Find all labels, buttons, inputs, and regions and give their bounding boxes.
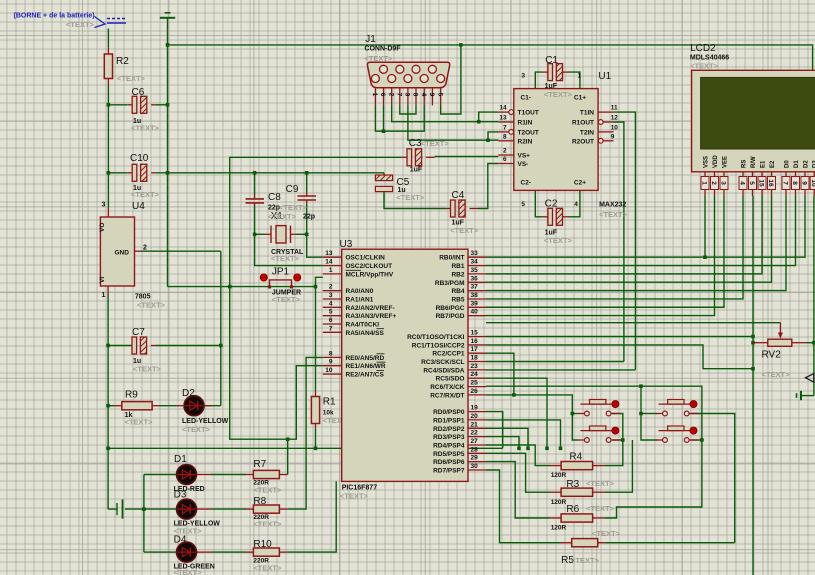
svg-text:RD2/PSP2: RD2/PSP2 — [433, 426, 465, 433]
wire: bottom rail y=448.3 — [108, 447, 503, 449]
svg-text:E1: E1 — [761, 160, 767, 168]
pin 14 U1 T1OUT — [509, 110, 514, 115]
svg-text:3: 3 — [102, 202, 106, 209]
wire: PIC RD2 drop — [486, 428, 528, 448]
svg-text:7: 7 — [503, 124, 507, 131]
svg-text:<TEXT>: <TEXT> — [253, 564, 282, 573]
resistor R9 — [122, 402, 152, 410]
wire: PIC RB1 to LCD pin column — [486, 196, 796, 266]
pin 6 U1 VS- — [498, 163, 514, 165]
svg-text:7: 7 — [782, 181, 789, 185]
svg-text:T1OUT: T1OUT — [518, 110, 539, 117]
node: junction crystal right / C9 column — [305, 233, 309, 237]
svg-text:RC4/SDI/SDA: RC4/SDI/SDA — [423, 367, 464, 374]
crystal X1 — [265, 233, 271, 235]
capacitor C4 1uF — [446, 208, 451, 210]
wire: PIC RC3 line — [486, 361, 624, 363]
svg-text:<TEXT>: <TEXT> — [364, 54, 393, 63]
svg-text:MAX232: MAX232 — [599, 202, 626, 209]
svg-text:7: 7 — [396, 93, 403, 97]
potentiometer RV2 — [768, 339, 792, 346]
wire: PIC RC1 jog to x=753 — [486, 345, 753, 369]
svg-text:R6: R6 — [566, 504, 579, 515]
pin 3 U3 RA1/AN1 — [323, 298, 342, 300]
svg-text:<TEXT>: <TEXT> — [450, 226, 479, 235]
wire: PIC RB4 to LCD pin column — [486, 196, 786, 291]
wire: button A left lead from column — [572, 413, 578, 415]
svg-text:<TEXT>: <TEXT> — [544, 236, 573, 245]
svg-text:3: 3 — [720, 181, 727, 185]
resistor R8 220R — [253, 505, 279, 513]
wire: PIC RD7 to R5 left — [486, 470, 560, 543]
wire: PIC RB2 to LCD pin column — [486, 196, 762, 274]
svg-text:R2OUT: R2OUT — [572, 138, 594, 145]
wire: C8 top lead — [254, 173, 256, 195]
svg-text:RB5: RB5 — [451, 297, 464, 304]
svg-text:<TEXT>: <TEXT> — [592, 529, 621, 538]
wire: PIC RB6 to LCD pin column — [486, 196, 724, 307]
pin 6 J1 — [383, 88, 385, 106]
svg-text:VSS: VSS — [704, 156, 710, 168]
svg-text:12: 12 — [611, 115, 619, 122]
wire: C9 top lead — [306, 173, 308, 192]
wire: D4 left — [144, 551, 176, 553]
resistor R5 120R — [572, 539, 598, 547]
svg-text:23: 23 — [471, 363, 479, 370]
pin 40 U3 RB7/PGD — [468, 315, 486, 317]
node: junction RC1 join — [751, 367, 755, 371]
wire: MAX232 pin5 to C2 left — [535, 190, 542, 216]
wire: PIC RD3 drop — [486, 437, 519, 449]
svg-text:VS+: VS+ — [518, 153, 531, 160]
svg-text:2: 2 — [143, 245, 147, 252]
node: junction DB9 pin5 riser on top rail — [459, 43, 463, 47]
pin 28 U3 RD5/PSP5 — [468, 452, 486, 454]
svg-text:RA4/T0CKI: RA4/T0CKI — [346, 322, 380, 329]
node: junction C6 ground rail — [166, 103, 170, 107]
svg-text:27: 27 — [471, 438, 479, 445]
svg-text:8: 8 — [791, 181, 798, 185]
svg-text:36: 36 — [471, 275, 479, 282]
svg-text:RD3/PSP3: RD3/PSP3 — [433, 434, 465, 441]
wire: R5 right line — [605, 542, 735, 544]
wire: PIC RB3 to LCD pin column — [486, 196, 772, 282]
svg-text:R10: R10 — [253, 539, 272, 550]
svg-text:RC0/T1OSO/T1CKI: RC0/T1OSO/T1CKI — [407, 334, 465, 341]
svg-text:R4: R4 — [569, 452, 582, 463]
wire: RV2 wiper line — [486, 322, 780, 324]
pin 1 J1 — [374, 88, 376, 106]
pin 25 U3 RC6/TX/CK — [468, 386, 486, 388]
wire: LCD pin10 column down to RV2 right / ground — [813, 196, 815, 396]
svg-text:VI: VI — [99, 277, 106, 283]
svg-text:13: 13 — [499, 115, 507, 122]
wire: DB9 pin7-pin8 link — [400, 105, 416, 114]
pin 2 U1 VS+ — [498, 154, 514, 156]
svg-text:RB0/INT: RB0/INT — [439, 255, 464, 262]
svg-text:C8: C8 — [268, 192, 281, 203]
svg-text:16: 16 — [767, 179, 774, 187]
svg-text:R9: R9 — [125, 390, 138, 401]
LED D1 LED-RED — [176, 474, 183, 476]
wire: C9 bottom to PIC pin13 — [307, 204, 323, 257]
svg-text:5: 5 — [329, 309, 333, 316]
svg-text:RB7/PGD: RB7/PGD — [436, 313, 465, 320]
svg-text:10: 10 — [810, 179, 815, 187]
wire: left column U4 pin1 down to battery minus — [107, 295, 109, 509]
pin 21 U3 RD2/PSP2 — [468, 427, 486, 429]
svg-text:8: 8 — [329, 350, 333, 357]
battery cell (negative return) — [116, 503, 118, 515]
svg-text:R8: R8 — [253, 496, 266, 507]
svg-text:3: 3 — [329, 292, 333, 299]
svg-text:MDLS40466: MDLS40466 — [690, 55, 729, 62]
pin 8 U1 R2IN — [498, 140, 514, 142]
svg-text:RA5/AN4/SS: RA5/AN4/SS — [346, 330, 385, 337]
svg-text:1: 1 — [102, 292, 106, 299]
LED D3 LED-YELLOW — [176, 508, 183, 510]
wire: LCD pin1 column to RB0 line — [704, 196, 706, 257]
wire: jumper drop line to LED area rail — [230, 287, 323, 440]
svg-text:17: 17 — [471, 346, 479, 353]
pin 24 U3 RC5/SDO — [468, 377, 486, 379]
svg-text:RC2/CCP1: RC2/CCP1 — [432, 351, 465, 358]
svg-text:3: 3 — [521, 73, 525, 80]
svg-text:19: 19 — [471, 405, 479, 412]
pin 12 U1 R1OUT — [598, 120, 603, 125]
pin 13 U3 OSC1/CLKIN — [323, 256, 342, 258]
ground (right, rotated) — [800, 391, 802, 400]
wire: C7 right to +5V column — [156, 345, 221, 347]
pin 13 U1 R1IN — [498, 121, 514, 123]
svg-text:37: 37 — [471, 284, 479, 291]
svg-text:<TEXT>: <TEXT> — [268, 212, 297, 221]
wire: PIC RB7 to LCD pin column — [486, 196, 715, 316]
svg-text:OSC1/CLKIN: OSC1/CLKIN — [346, 255, 386, 262]
svg-text:R1OUT: R1OUT — [572, 120, 594, 127]
wire: D3 right to R8 — [211, 508, 246, 510]
capacitor C8 22p — [246, 194, 255, 196]
node: junction bottom rail left column — [106, 447, 110, 451]
wire: battery terminal to R2 — [107, 29, 109, 48]
svg-text:R2IN: R2IN — [518, 138, 533, 145]
wire: +V top horizontal rail y=44.9 — [168, 45, 813, 71]
svg-text:D1: D1 — [794, 160, 800, 168]
pin 15 U3 RC0/T1OSO/T1CKI — [468, 336, 486, 338]
wire: R9 left — [108, 405, 114, 407]
pin 5 U3 RA3/AN3/VREF+ — [323, 315, 342, 317]
svg-text:11: 11 — [611, 105, 618, 112]
pin 6 U3 RA4/T0CKI — [323, 323, 342, 325]
wire: PIC RC6 bus to buttons C D and R6 — [486, 386, 702, 518]
node: junction rail C9 — [305, 171, 309, 175]
svg-text:20: 20 — [471, 413, 479, 420]
svg-text:16: 16 — [471, 338, 479, 345]
svg-text:21: 21 — [471, 421, 479, 428]
LED D2 LED-YELLOW — [176, 405, 183, 407]
pin 26 U3 RC7/RX/DT — [468, 394, 486, 396]
wire: DB9 pin5 to top rail — [441, 45, 461, 114]
push button SW-C — [656, 413, 663, 415]
svg-text:RD4/PSP4: RD4/PSP4 — [433, 443, 465, 450]
wire: D1 left — [144, 474, 176, 476]
svg-text:120R: 120R — [551, 499, 567, 506]
svg-text:1: 1 — [701, 181, 708, 185]
wire: R10 right riser — [287, 481, 336, 552]
svg-text:C2: C2 — [545, 199, 558, 210]
node: junction MCLR jumper line — [314, 285, 318, 289]
op-amp U1 MAX232 — [514, 89, 598, 191]
svg-text:<TEXT>: <TEXT> — [586, 504, 615, 513]
svg-text:RA1/AN1: RA1/AN1 — [346, 297, 374, 304]
svg-text:D1: D1 — [174, 454, 187, 465]
wire: PIC RC2 jog down to RC7 line — [486, 353, 514, 395]
svg-text:15: 15 — [471, 330, 479, 337]
svg-text:C10: C10 — [130, 153, 149, 164]
svg-text:R2: R2 — [116, 56, 129, 67]
connector J1 CONN-D9F — [367, 62, 449, 87]
node: junction C7 right column — [219, 344, 223, 348]
svg-text:22: 22 — [471, 430, 479, 437]
node: junction top rail / ground rail — [166, 43, 170, 47]
svg-text:15: 15 — [758, 179, 765, 187]
wire: PIC RC7 to buttons A B left — [486, 395, 578, 440]
svg-text:C4: C4 — [452, 190, 465, 201]
svg-text:4: 4 — [574, 201, 578, 208]
pin 3 J1 — [407, 88, 409, 106]
node: junction C10 left column — [107, 171, 111, 175]
svg-text:120R: 120R — [551, 472, 567, 479]
svg-text:<TEXT>: <TEXT> — [690, 62, 719, 71]
svg-text:1: 1 — [578, 73, 582, 80]
svg-text:RA0/AN0: RA0/AN0 — [346, 288, 374, 295]
svg-text:33: 33 — [471, 250, 479, 257]
svg-text:U3: U3 — [340, 239, 353, 250]
node: junction rail C8 — [253, 171, 257, 175]
svg-text:LCD2: LCD2 — [690, 43, 716, 54]
svg-text:J1: J1 — [365, 34, 376, 45]
svg-text:28: 28 — [471, 446, 479, 453]
svg-text:GND: GND — [115, 250, 130, 257]
wire: DB9 pin1-pin6-pin4 link — [375, 105, 424, 131]
power terminal (BORNE + de la batterie) — [95, 17, 106, 28]
wire: D4 right to R10 — [211, 551, 246, 553]
svg-text:D2: D2 — [804, 160, 810, 168]
microcontroller U3 PIC16F877 — [342, 249, 468, 481]
capacitor C6 — [127, 104, 132, 106]
wire: MAX232 T1IN down to PIC RC4 line — [614, 112, 636, 370]
svg-text:4: 4 — [420, 93, 427, 97]
svg-text:R1: R1 — [323, 397, 336, 408]
svg-text:R7: R7 — [253, 459, 266, 470]
svg-text:(BORNE + de la batterie): (BORNE + de la batterie) — [14, 13, 95, 20]
svg-text:CONN-D9F: CONN-D9F — [364, 46, 401, 53]
capacitor C3 1uF — [402, 156, 408, 158]
pin 5 J1 — [440, 88, 442, 106]
svg-text:9: 9 — [801, 181, 808, 185]
svg-text:RC6/TX/CK: RC6/TX/CK — [430, 384, 465, 391]
svg-text:14: 14 — [499, 105, 507, 112]
wire: PIC RD6 to R6 left — [486, 462, 550, 518]
svg-text:5: 5 — [521, 201, 525, 208]
svg-text:5: 5 — [748, 181, 755, 185]
wire: MAX232 R1OUT down to PIC RC3 line — [614, 122, 624, 362]
svg-text:RB4: RB4 — [451, 288, 464, 295]
resistor R7 220R — [253, 470, 279, 478]
pin 30 U3 RD7/PSP7 — [468, 469, 486, 471]
svg-text:9: 9 — [428, 93, 435, 97]
svg-text:RD7/PSP7: RD7/PSP7 — [433, 468, 465, 475]
svg-text:<TEXT>: <TEXT> — [66, 20, 95, 29]
svg-text:<TEXT>: <TEXT> — [340, 492, 369, 501]
svg-text:5: 5 — [436, 93, 443, 97]
svg-text:T2IN: T2IN — [580, 129, 594, 136]
svg-text:RB2: RB2 — [451, 271, 464, 278]
svg-text:RB1: RB1 — [451, 263, 464, 270]
svg-text:RB3/PGM: RB3/PGM — [435, 280, 465, 287]
svg-text:VEE: VEE — [723, 156, 729, 168]
svg-text:1: 1 — [329, 267, 333, 274]
svg-text:<TEXT>: <TEXT> — [544, 90, 573, 99]
svg-text:<TEXT>: <TEXT> — [271, 254, 300, 263]
wire: C6 right — [156, 104, 168, 106]
svg-text:2: 2 — [329, 284, 333, 291]
pin 17 U3 RC2/CCP1 — [468, 352, 486, 354]
svg-text:D4: D4 — [174, 535, 187, 546]
LED D4 LED-GREEN — [176, 551, 183, 553]
svg-text:<TEXT>: <TEXT> — [272, 295, 301, 304]
svg-text:6: 6 — [329, 317, 333, 324]
wire: DB9 pin3 to MAX232 R2IN — [408, 105, 498, 140]
svg-text:T2OUT: T2OUT — [518, 129, 539, 136]
wire: MAX232 pin3 to C1 left — [535, 72, 542, 89]
pin 20 U3 RD1/PSP1 — [468, 419, 486, 421]
wire: battery cell minus to left column — [108, 508, 117, 510]
svg-text:<TEXT>: <TEXT> — [131, 124, 160, 133]
pin 9 U1 R2OUT — [598, 138, 603, 143]
wire: button D right to RC7 column — [691, 439, 702, 441]
wire: battery cell to rail — [125, 508, 144, 510]
wire: C3 left feed from jumper column — [230, 157, 402, 286]
svg-text:RV2: RV2 — [762, 350, 782, 361]
push button SW-B — [578, 439, 585, 441]
svg-text:C1+: C1+ — [574, 95, 586, 102]
svg-text:<TEXT>: <TEXT> — [131, 190, 160, 199]
resistor R10 220R — [253, 548, 279, 556]
svg-text:<TEXT>: <TEXT> — [182, 425, 211, 434]
svg-text:C2+: C2+ — [574, 180, 586, 187]
wire: D1 right to R7 — [211, 474, 246, 476]
pin 33 U3 RB0/INT — [468, 256, 486, 258]
wire: PIC RD5 to R3 left — [486, 453, 550, 492]
node: junction crystal left / C8 column — [253, 233, 257, 237]
capacitor C1 1uF — [542, 71, 548, 73]
svg-text:3: 3 — [404, 93, 411, 97]
input terminal (arrow) — [805, 374, 814, 383]
pin 19 U3 RD0/PSP0 — [468, 411, 486, 413]
svg-text:10: 10 — [611, 124, 619, 131]
svg-text:C7: C7 — [132, 327, 145, 338]
resistor R1 10k — [311, 397, 319, 424]
svg-text:26: 26 — [471, 388, 479, 395]
pin 9 J1 — [431, 88, 433, 106]
svg-text:RS: RS — [742, 160, 748, 168]
svg-text:2: 2 — [710, 181, 717, 185]
wire: C2 right to MAX232 pin4 — [569, 190, 580, 216]
svg-text:4: 4 — [329, 300, 333, 307]
wire: net MCLR jumper line y=286.6 — [168, 286, 316, 288]
svg-text:1uF: 1uF — [545, 83, 558, 90]
pin 34 U3 RB1 — [468, 265, 486, 267]
svg-text:R3: R3 — [566, 479, 579, 490]
svg-text:RD5/PSP5: RD5/PSP5 — [433, 451, 465, 458]
wire: RV2 left terminal from x=753 — [751, 341, 755, 345]
svg-text:C1: C1 — [545, 55, 558, 66]
wire: PIC pin8 to R8 — [288, 357, 323, 509]
wire: PIC RD1 drop — [486, 420, 561, 448]
svg-text:VDD: VDD — [713, 155, 719, 168]
svg-text:2: 2 — [503, 148, 507, 155]
wire: crystal right to C9 column — [297, 233, 307, 235]
svg-text:<TEXT>: <TEXT> — [421, 139, 450, 148]
pin 9 U3 RE1/AN6/WR — [323, 365, 342, 367]
wire: PIC pin1 MCLR to R1 column — [316, 277, 323, 391]
capacitor C9 22p — [298, 195, 317, 197]
svg-text:39: 39 — [471, 300, 479, 307]
wire: MAX232 T2OUT jog to pin3 line — [488, 132, 498, 140]
pin 11 U1 T1IN — [598, 111, 613, 113]
svg-text:24: 24 — [471, 371, 479, 378]
svg-text:<TEXT>: <TEXT> — [396, 193, 425, 202]
svg-text:38: 38 — [471, 292, 479, 299]
pin 8 U3 RE0/AN5/RD — [323, 356, 342, 358]
svg-text:D2: D2 — [182, 388, 195, 399]
svg-text:RC1/T1OSI/CCP2: RC1/T1OSI/CCP2 — [412, 342, 465, 349]
pin 38 U3 RB5 — [468, 298, 486, 300]
pin 10 U3 RE2/AN7/CS — [323, 373, 342, 375]
svg-text:U1: U1 — [598, 71, 611, 82]
svg-text:MCLR/Vpp/THV: MCLR/Vpp/THV — [346, 271, 394, 278]
svg-text:40: 40 — [471, 309, 479, 316]
svg-text:<TEXT>: <TEXT> — [586, 479, 615, 488]
wire: DB9 pin2 to MAX232 R1IN — [392, 105, 499, 121]
wire: crystal left to C8 column — [255, 233, 265, 235]
svg-text:<TEXT>: <TEXT> — [117, 74, 146, 83]
wire: C8 bottom to PIC pin14 — [255, 206, 323, 266]
svg-text:13: 13 — [325, 250, 333, 257]
wire: MAX232 T1OUT jog to pin2 line — [479, 112, 499, 122]
svg-text:RA3/AN3/VREF+: RA3/AN3/VREF+ — [346, 313, 397, 320]
svg-text:VO: VO — [99, 223, 106, 232]
svg-text:6: 6 — [503, 156, 507, 163]
svg-text:<TEXT>: <TEXT> — [125, 418, 154, 427]
svg-text:14: 14 — [325, 259, 333, 266]
pin 36 U3 RB3/PGM — [468, 281, 486, 283]
wire: button C left lead — [641, 413, 657, 415]
wire: button B right join — [612, 439, 623, 441]
wire: C3 right to MAX232 VS+ — [435, 156, 499, 158]
wire: C5 bottom to C4 left (gnd) — [384, 192, 446, 209]
svg-text:9: 9 — [611, 133, 615, 140]
pin 23 U3 RC4/SDI/SDA — [468, 369, 486, 371]
wire: PIC RC5 stub to bottom rail — [486, 378, 547, 448]
pin 14 U3 OSC2/CLKOUT — [323, 265, 342, 267]
wire: PIC RD4 to R4 left — [486, 445, 550, 466]
wire: R9 to D2 and riser — [160, 405, 177, 407]
wire: R7 riser — [287, 439, 289, 474]
pin 7 J1 — [399, 88, 401, 106]
wire: D2 right to +5V column — [204, 405, 221, 407]
